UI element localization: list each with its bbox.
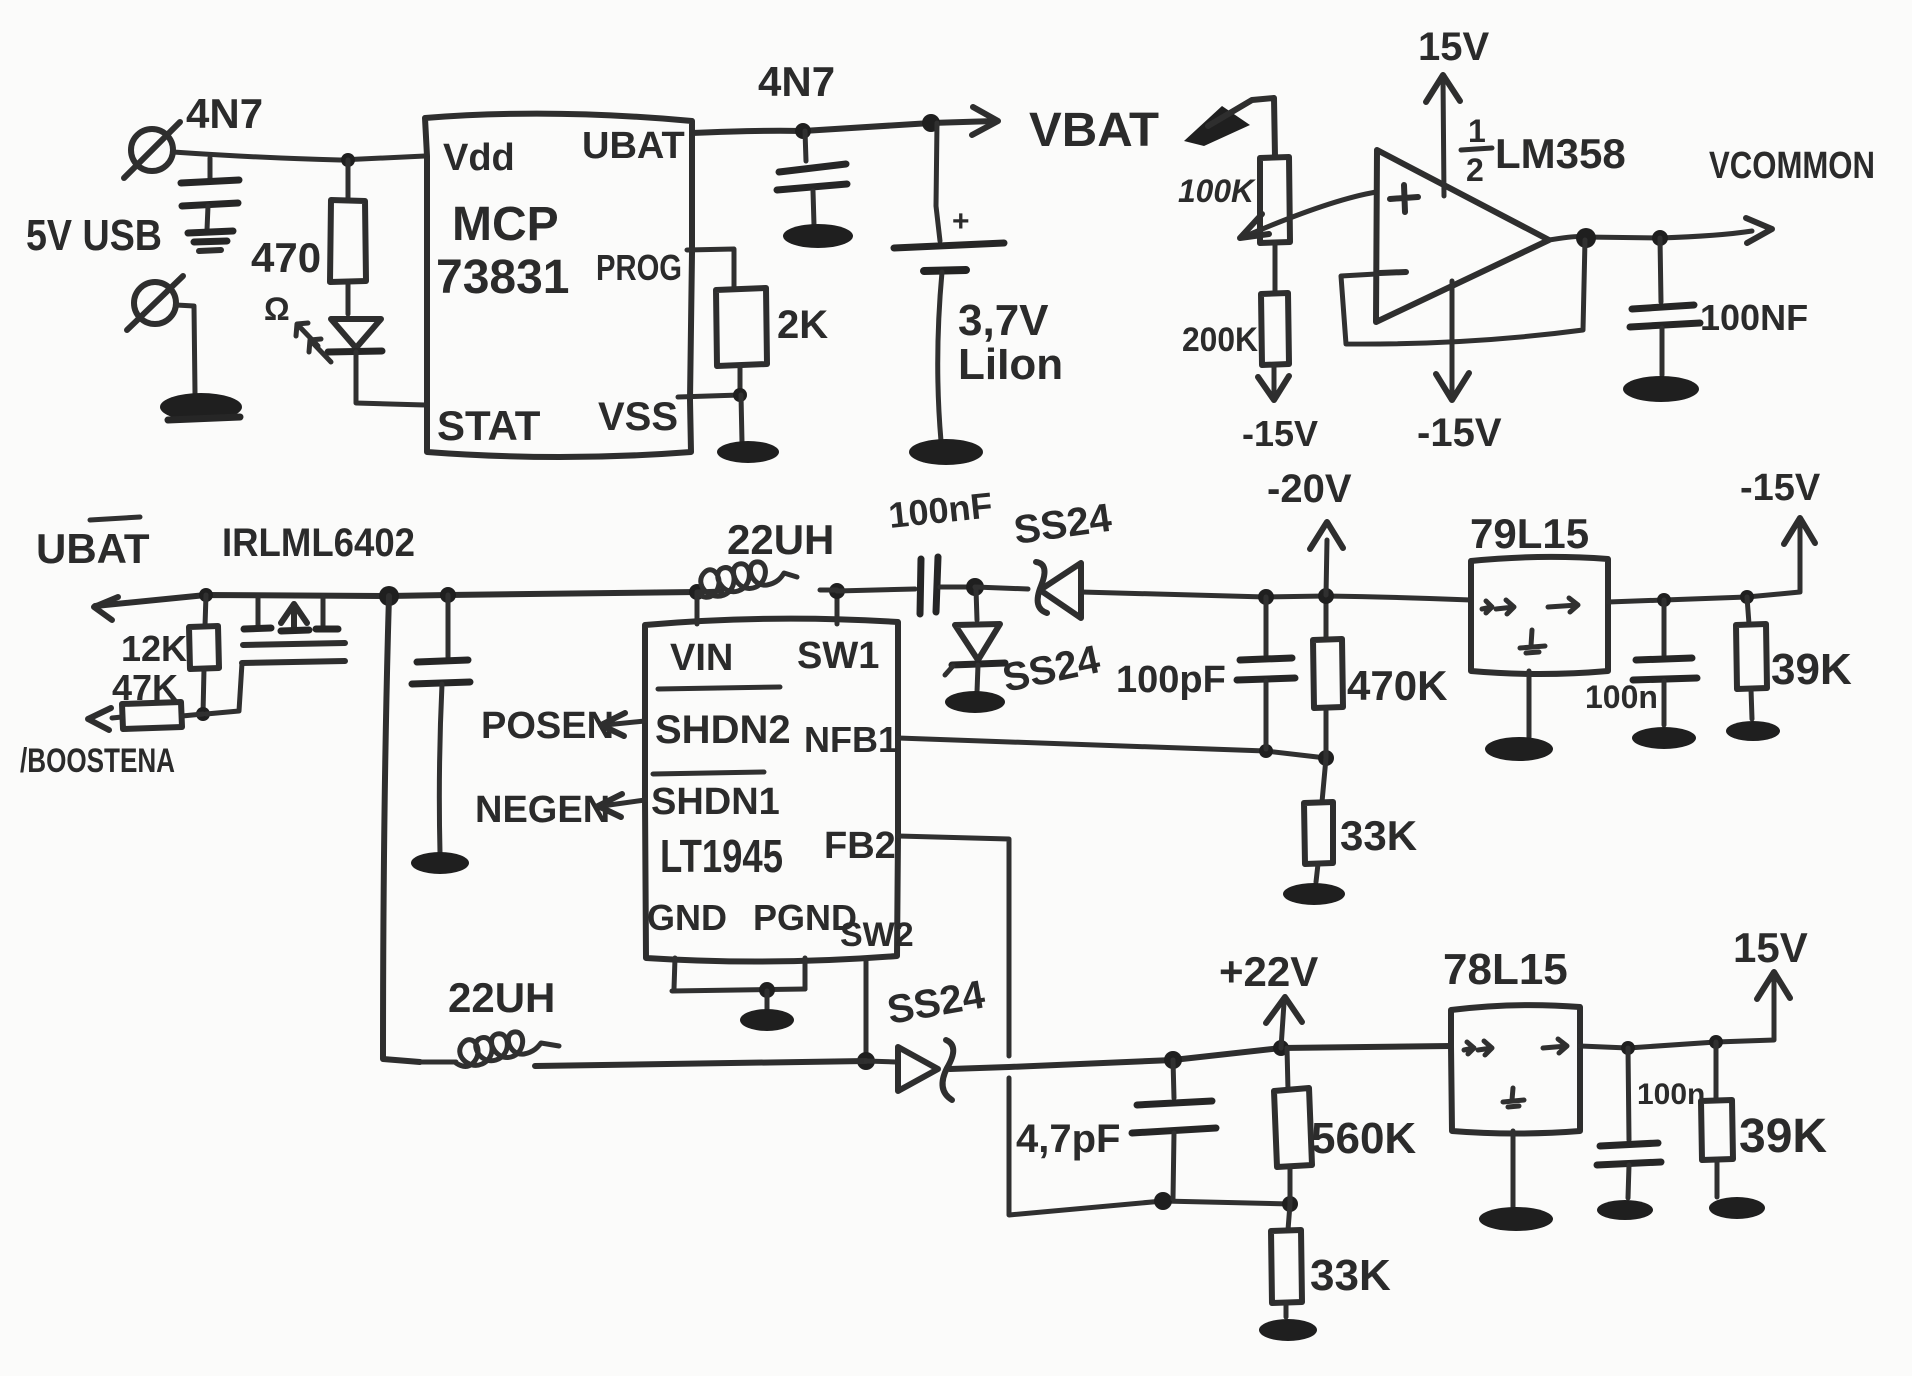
svg-text:NFB1: NFB1 xyxy=(804,719,898,760)
svg-text:-15V: -15V xyxy=(1740,467,1821,509)
svg-text:22UH: 22UH xyxy=(448,974,555,1021)
svg-text:4,7pF: 4,7pF xyxy=(1016,1117,1120,1161)
svg-text:15V: 15V xyxy=(1733,924,1808,971)
svg-text:GND: GND xyxy=(647,897,727,938)
svg-text:SW2: SW2 xyxy=(840,916,914,954)
svg-text:IRLML6402: IRLML6402 xyxy=(222,521,415,565)
svg-text:12K: 12K xyxy=(121,628,187,669)
svg-text:39K: 39K xyxy=(1739,1110,1827,1163)
svg-text:3,7V: 3,7V xyxy=(958,296,1049,345)
svg-text:73831: 73831 xyxy=(436,251,569,304)
svg-text:5V USB: 5V USB xyxy=(26,211,162,260)
svg-text:VSS: VSS xyxy=(598,395,678,439)
svg-text:4N7: 4N7 xyxy=(186,90,263,137)
svg-text:LT1945: LT1945 xyxy=(660,830,783,882)
svg-text:4N7: 4N7 xyxy=(758,58,835,105)
svg-text:39K: 39K xyxy=(1771,645,1852,694)
svg-text:-15V: -15V xyxy=(1242,413,1318,454)
svg-text:22UH: 22UH xyxy=(727,516,834,563)
svg-text:SHDN2: SHDN2 xyxy=(655,708,791,752)
svg-text:UBAT: UBAT xyxy=(582,125,685,167)
svg-text:200K: 200K xyxy=(1182,321,1258,359)
svg-text:LiIon: LiIon xyxy=(958,340,1063,389)
svg-text:-20V: -20V xyxy=(1267,467,1352,511)
svg-text:NEGEN: NEGEN xyxy=(475,789,610,831)
svg-text:33K: 33K xyxy=(1340,812,1417,859)
svg-text:100K: 100K xyxy=(1178,173,1257,209)
svg-text:2K: 2K xyxy=(777,303,828,347)
svg-text:560K: 560K xyxy=(1311,1114,1416,1163)
svg-text:PROG: PROG xyxy=(596,247,682,288)
svg-text:-15V: -15V xyxy=(1417,411,1502,455)
svg-text:1: 1 xyxy=(1468,113,1486,149)
svg-text:33K: 33K xyxy=(1310,1251,1391,1300)
svg-text:SW1: SW1 xyxy=(797,635,879,677)
svg-text:470: 470 xyxy=(251,234,321,281)
svg-text:VCOMMON: VCOMMON xyxy=(1709,145,1875,187)
svg-text:15V: 15V xyxy=(1418,25,1489,69)
svg-text:+: + xyxy=(952,205,970,238)
svg-text:100NF: 100NF xyxy=(1700,297,1808,338)
svg-text:VIN: VIN xyxy=(670,637,733,679)
svg-text:UBAT: UBAT xyxy=(36,525,150,572)
svg-text:79L15: 79L15 xyxy=(1470,510,1589,557)
svg-text:Vdd: Vdd xyxy=(443,137,515,179)
svg-text:470K: 470K xyxy=(1347,662,1447,709)
svg-text:/BOOSTENA: /BOOSTENA xyxy=(20,742,175,780)
svg-text:78L15: 78L15 xyxy=(1443,945,1568,994)
svg-text:SHDN1: SHDN1 xyxy=(651,781,780,823)
svg-text:STAT: STAT xyxy=(437,402,541,449)
svg-text:100n: 100n xyxy=(1585,679,1658,715)
svg-text:100pF: 100pF xyxy=(1116,659,1226,701)
svg-text:Ω: Ω xyxy=(264,291,290,327)
svg-text:+22V: +22V xyxy=(1219,948,1318,995)
svg-text:100n: 100n xyxy=(1637,1078,1705,1111)
svg-text:POSEN: POSEN xyxy=(481,705,614,747)
svg-text:FB2: FB2 xyxy=(824,825,896,867)
svg-text:2: 2 xyxy=(1466,152,1484,188)
svg-text:VBAT: VBAT xyxy=(1029,104,1159,157)
svg-text:MCP: MCP xyxy=(452,198,559,251)
svg-text:LM358: LM358 xyxy=(1495,130,1626,177)
